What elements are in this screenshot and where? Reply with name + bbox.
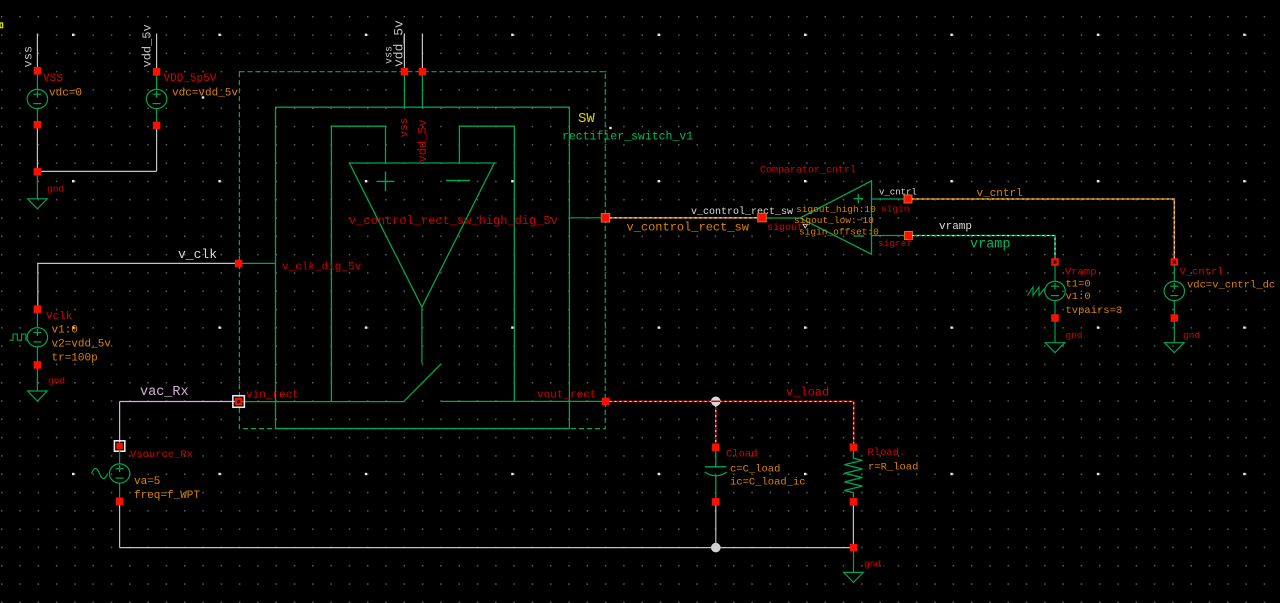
junction dot v_load <box>711 397 721 407</box>
pin Vramp plus terminal <box>1051 258 1059 266</box>
svg-text:v_control_rect_sw: v_control_rect_sw <box>627 221 750 235</box>
ground symbol (supplies) <box>28 176 48 209</box>
svg-text:Cload: Cload <box>726 449 758 461</box>
wire vdd_5v (gray stub above VDD_5p5V) <box>156 34 158 69</box>
svg-text:v_load: v_load <box>786 386 829 400</box>
svg-text:v1:0: v1:0 <box>52 325 78 337</box>
svg-text:gnd: gnd <box>1183 330 1200 341</box>
switch blade <box>405 364 441 400</box>
pin comparator sigref <box>904 231 913 240</box>
voltage source V_cntrl <box>1164 266 1184 315</box>
svg-text:sigin_offset:0: sigin_offset:0 <box>799 227 879 238</box>
wire v_load (red, selected) <box>610 401 854 443</box>
wire SW vdd_5v pin lead <box>421 75 423 107</box>
svg-text:Rload.: Rload. <box>868 447 906 459</box>
svg-text:vdd_5v: vdd_5v <box>392 20 407 67</box>
wire vin_rect internal <box>242 401 405 403</box>
pin Rload bottom <box>850 498 858 506</box>
pin comparator sigout <box>757 213 767 223</box>
svg-text:sigout_low:−10: sigout_low:−10 <box>794 215 874 226</box>
svg-text:vdd_5v: vdd_5v <box>141 24 155 67</box>
origin marker <box>803 224 808 228</box>
voltage source Vsource_Rx <box>109 450 129 498</box>
svg-text:ic=C_load_ic: ic=C_load_ic <box>730 477 806 489</box>
svg-text:V_cntrl: V_cntrl <box>1180 267 1224 279</box>
wire VSS to ground rail <box>36 128 38 171</box>
svg-text:gnd: gnd <box>47 184 64 195</box>
svg-text:sigref: sigref <box>878 238 913 249</box>
wire v_clk_dig_5v lead <box>242 262 276 264</box>
pin gnd junction bottom rail <box>850 544 858 552</box>
wire vout_rect internal <box>441 400 602 402</box>
pin Vclk minus terminal <box>34 361 42 369</box>
wire bottom rail vertical from Vsource_Rx <box>119 505 121 548</box>
pin VSS plus terminal <box>34 67 42 75</box>
svg-text:v_clk: v_clk <box>178 247 217 262</box>
wire v_load branch to Cload <box>715 401 717 443</box>
svg-text:v_control_rect_sw_high_dig_5v: v_control_rect_sw_high_dig_5v <box>349 214 558 228</box>
pin Vsource_Rx plus terminal <box>114 441 124 451</box>
comparator Comparator_cntrl triangle <box>800 181 872 254</box>
wire vac_Rx horizontal <box>120 401 235 403</box>
symbol inner-right bracket <box>459 126 514 401</box>
wire vdd_5v stub above SW pin <box>421 34 423 69</box>
wire vss stub above SW pin <box>403 34 405 69</box>
svg-text:Vsource_Rx: Vsource_Rx <box>130 449 193 461</box>
pin V_cntrl plus terminal <box>1171 258 1179 266</box>
svg-text:vin_rect: vin_rect <box>246 390 299 402</box>
svg-text:vout_rect: vout_rect <box>537 390 596 402</box>
ramp waveform glyph Vramp <box>1028 287 1045 296</box>
svg-text:v2=vdd_5v: v2=vdd_5v <box>52 339 112 351</box>
voltage source VSS <box>27 74 47 121</box>
ground symbol (V_cntrl) <box>1165 322 1185 353</box>
svg-text:Comparator_cntrl: Comparator_cntrl <box>760 165 856 177</box>
voltage source Vclk <box>27 313 47 362</box>
svg-text:VDD_5p5V: VDD_5p5V <box>164 73 217 85</box>
pin VDD_5p5V plus terminal <box>153 68 161 76</box>
svg-text:vdc=v_cntrl_dc: vdc=v_cntrl_dc <box>1187 280 1275 292</box>
svg-text:v_cntrl: v_cntrl <box>977 188 1023 200</box>
ground symbol (load) <box>844 551 864 582</box>
wire vss (gray stub above VSS) <box>36 34 38 68</box>
svg-text:vramp: vramp <box>970 238 1011 253</box>
pin Rload top <box>850 443 858 451</box>
svg-text:v_cntrl: v_cntrl <box>879 188 917 198</box>
pin SW control out <box>601 213 611 223</box>
svg-text:sigin: sigin <box>881 204 910 215</box>
wire op-amp output stub <box>421 307 423 364</box>
pin VDD_5p5V minus terminal <box>153 122 161 129</box>
plus mark comparator <box>854 198 864 200</box>
svg-text:gnd: gnd <box>48 376 65 387</box>
svg-text:t1=0: t1=0 <box>1066 279 1091 291</box>
pin gnd junction <box>34 168 42 176</box>
svg-text:va=5: va=5 <box>134 476 160 488</box>
svg-text:v_clk_dig_5v: v_clk_dig_5v <box>282 262 362 274</box>
pin Vclk plus terminal <box>34 305 42 313</box>
sine waveform glyph Vsource_Rx <box>92 469 108 479</box>
minus mark <box>446 180 470 182</box>
svg-text:v1:0: v1:0 <box>1066 291 1091 303</box>
plus mark <box>377 180 395 182</box>
svg-text:Vclk: Vclk <box>46 311 73 323</box>
capacitor Cload <box>705 451 727 498</box>
pin Vsource_Rx minus terminal <box>116 498 124 506</box>
symbol body SW (solid rect) <box>276 107 570 428</box>
ground symbol (Vclk) <box>28 369 48 401</box>
svg-text:vss: vss <box>22 46 36 68</box>
wire Rload to bottom rail <box>852 506 854 548</box>
resistor Rload <box>844 451 862 498</box>
voltage source VDD_5p5V <box>146 75 166 122</box>
pin Cload top <box>712 443 720 451</box>
symbol inner-left bracket <box>331 126 385 401</box>
svg-text:VSS: VSS <box>43 73 63 85</box>
svg-text:tr=100p: tr=100p <box>52 353 98 365</box>
wire Cload to bottom rail <box>715 506 717 548</box>
svg-text:rectifier_switch_v1: rectifier_switch_v1 <box>562 131 693 144</box>
pin SW v_clk_dig_5v <box>235 260 243 268</box>
svg-text:gnd: gnd <box>1066 330 1083 341</box>
wire sigin lead <box>872 198 905 200</box>
wire sigref lead <box>872 235 905 237</box>
svg-text:SW: SW <box>578 111 595 127</box>
wire vac_Rx vertical <box>119 402 121 443</box>
wire VDD to ground rail <box>156 129 158 171</box>
svg-text:vss: vss <box>399 118 411 138</box>
svg-text:tvpairs=3: tvpairs=3 <box>1066 305 1123 317</box>
svg-text:vdc=vdd_5v: vdc=vdd_5v <box>172 88 238 100</box>
svg-text:vdd_5v: vdd_5v <box>416 119 430 162</box>
wire vramp (green, selected) <box>912 236 1055 259</box>
svg-text:gnd.: gnd. <box>864 559 887 570</box>
ground symbol (Vramp) <box>1045 322 1065 353</box>
svg-text:vac_Rx: vac_Rx <box>140 385 189 400</box>
op-amp triangle inside SW <box>349 163 494 307</box>
pin SW vin_rect <box>233 396 245 408</box>
pulse waveform glyph Vclk <box>10 334 28 340</box>
wire sigout lead <box>766 217 801 219</box>
svg-text:vramp: vramp <box>939 221 972 233</box>
pin VSS minus terminal <box>34 121 42 129</box>
pin SW vss <box>401 68 409 76</box>
svg-text:freq=f_WPT: freq=f_WPT <box>134 490 200 502</box>
wire v_cntrl (orange, selected) <box>912 199 1175 258</box>
instance boundary SW rectifier_switch_v1 (dashed) <box>239 72 605 429</box>
minus mark comparator <box>854 235 865 237</box>
svg-text:r=R_load: r=R_load <box>868 462 918 474</box>
wire control output lead <box>569 217 602 219</box>
wire bottom ground rail <box>120 547 854 549</box>
junction dot bottom rail <box>711 543 721 553</box>
voltage source Vramp <box>1045 266 1065 315</box>
wire ground rail horizontal <box>37 170 156 172</box>
pin SW vdd_5v <box>419 68 427 76</box>
wire v_clk (vertical) <box>37 263 39 305</box>
svg-text:vdc=0: vdc=0 <box>49 88 82 100</box>
pin Vramp minus terminal <box>1051 314 1059 322</box>
wire SW vss pin lead <box>403 75 405 107</box>
svg-text:Vramp.: Vramp. <box>1065 267 1103 279</box>
pin SW vout_rect <box>602 398 610 406</box>
pin comparator sigin <box>904 195 913 204</box>
wire v_clk (horizontal) <box>37 262 238 264</box>
wire v_control_rect_sw (orange, selected) <box>610 217 759 219</box>
svg-text:v_control_rect_sw: v_control_rect_sw <box>691 206 793 218</box>
pin Cload bottom <box>712 498 720 506</box>
pin V_cntrl minus terminal <box>1171 314 1179 322</box>
svg-text:sigout_high:10: sigout_high:10 <box>796 204 876 215</box>
svg-text:c=C_load: c=C_load <box>730 464 780 476</box>
